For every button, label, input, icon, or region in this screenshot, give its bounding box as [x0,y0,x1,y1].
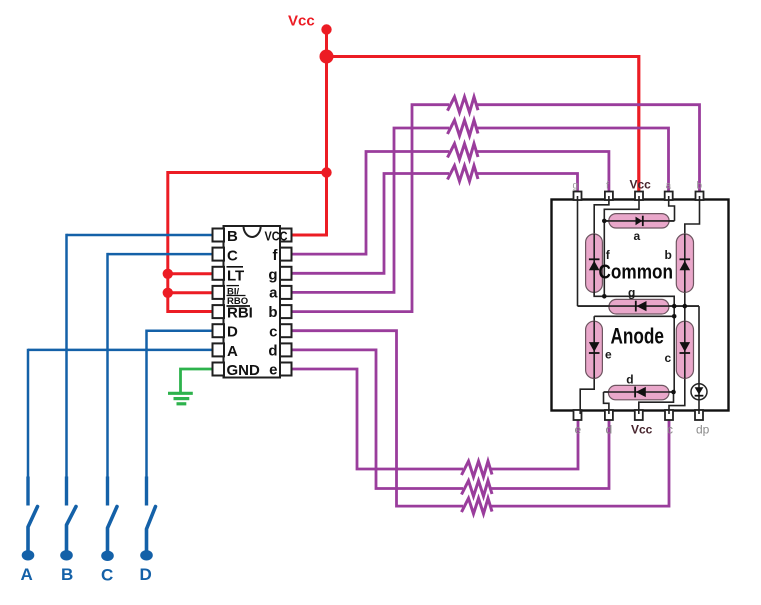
svg-text:e: e [605,348,612,362]
wire net c (R7 to display pin c) [491,418,669,506]
svg-text:e: e [575,423,582,437]
svg-text:LT: LT [227,268,244,285]
svg-text:C: C [227,248,238,265]
svg-text:d: d [268,343,277,360]
junction Vcc LT branch [321,167,331,177]
svg-text:g: g [573,181,579,192]
diode dp [691,384,707,400]
diode in segment d [636,387,646,397]
wire DS1 pin a internal [669,196,675,221]
wire to BI/RBO pin [168,291,214,294]
wire Vcc display drop [637,55,640,196]
wire input B vertical [65,234,68,478]
DS1 bottom pin dp [695,410,703,420]
diode line overlays inside segments [604,220,674,222]
DS1 top pin b [696,192,704,201]
U1 pin 3 (LT) [213,267,225,280]
switch SW-B [60,477,76,561]
svg-text:Vcc: Vcc [631,423,653,437]
wire net a (IC pin a to R2) [292,128,449,292]
diode in segment e [589,342,600,352]
svg-text:b: b [268,304,277,321]
DS1 bottom pin Vcc [635,410,643,420]
node anode junction rail/g [672,304,677,309]
resistor R7 (segment c) [462,498,493,514]
svg-text:C: C [101,566,113,585]
wire input A horizontal [28,349,214,352]
U1 pin 4 (BI/RBO) [213,286,225,299]
svg-text:a: a [634,229,641,243]
wire DS1 segment g diode line [578,305,700,307]
diode in segment b [680,261,691,271]
U1 pin 11 (c) [280,324,292,337]
svg-text:f: f [606,181,609,192]
diode in segment g [637,301,647,311]
wire Vcc to IC VCC pin [290,234,328,237]
svg-text:a: a [666,181,672,192]
wire input D vertical [145,330,148,478]
node anode junction b/c [683,304,688,309]
wire net d (IC pin d to R6) [292,350,463,489]
DS1 top pin Vcc [635,192,643,201]
svg-text:Vcc: Vcc [288,13,315,30]
wire DS1 segment d diode line [604,391,674,393]
svg-text:RBI: RBI [227,305,253,322]
resistor R1 (segment b) [448,97,479,113]
svg-text:B: B [227,228,238,245]
segment a body [609,214,669,228]
wire DS1 anode rail lower [594,315,674,317]
diode in segment a [636,217,643,226]
wire input A vertical [27,349,30,478]
wire net e (IC pin e to R5) [292,369,463,469]
wire DS1 pin d internal [604,392,609,414]
wire DS1 segment a diode line [604,220,674,222]
U1 pin 16 (VCC) [280,229,292,242]
svg-text:dp: dp [696,423,710,437]
node anode junction rail lower [672,314,677,319]
wire input C vertical [106,253,109,478]
switch SW-A [22,477,38,561]
ground [168,393,193,404]
segment c body [676,321,693,378]
resistor R6 (segment d) [462,481,493,497]
svg-text:b: b [665,248,672,262]
svg-text:VCC: VCC [265,229,289,244]
wire Vcc vertical trunk [325,30,328,236]
wire net f (IC pin f to R3) [292,152,449,255]
svg-text:c: c [665,351,672,365]
wire DS1 pin c internal [669,378,685,414]
wire net e (R5 to display pin e) [491,418,578,469]
wire net g (R4 to display pin g) [477,174,578,197]
DS1 bottom pin e [574,410,582,420]
segment e body [586,321,603,378]
switch SW-D [140,477,155,561]
resistor R2 (segment a) [448,120,479,136]
svg-text:D: D [227,324,238,341]
junction Vcc display branch [320,50,334,64]
U1 pin 8 (GND) [213,363,225,376]
wire net f (R3 to display pin f) [477,152,609,197]
node anode junction a [602,219,607,224]
power Vcc terminal dot [321,24,331,34]
junction BI/RBO pin [163,288,173,298]
U1 pin 12 (b) [280,305,292,318]
U1 pin 6 (A) [213,343,225,356]
junction LT pin [163,269,173,279]
wire DS1 anode rail right drop [604,296,674,392]
svg-text:g: g [268,267,277,284]
switch SW-C [101,477,117,562]
wire DS1 Vcc anode feed [604,196,639,296]
U1 pin 7 (D) [213,324,225,337]
segment b body [676,234,693,292]
wire DS1 segment e line and pin e internal [580,316,594,414]
svg-text:a: a [269,285,278,302]
wire DS1 pin f internal [594,196,609,296]
wire Vcc to display (horizontal) [327,55,639,58]
U1 pin 14 (g) [280,267,292,280]
diode in segment c [680,342,691,352]
display DS1 body [552,200,729,411]
segment d body [608,385,669,399]
DS1 top pin g [574,192,582,201]
U1 pin 9 (e) [280,363,292,376]
resistor R4 (segment g) [448,166,479,182]
DS1 top pin a [665,192,673,201]
svg-text:Common: Common [599,261,674,284]
wire DS1 dp line [698,306,700,414]
svg-text:b: b [697,181,703,192]
svg-text:c: c [667,423,673,437]
svg-text:g: g [628,286,635,300]
wire net g (IC pin g to R4) [292,174,449,274]
node anode junction d [671,390,676,395]
wire LT column vertical [168,171,214,312]
svg-text:D: D [140,565,152,584]
wire DS1 pin g internal drop [577,196,579,306]
U1 pin 13 (a) [280,286,292,299]
svg-text:e: e [269,362,277,379]
svg-text:A: A [227,343,238,360]
svg-text:d: d [606,423,613,437]
svg-text:Vcc: Vcc [630,178,652,192]
segment f body [586,234,603,292]
op-amp U1 body [224,226,281,378]
U1 pin 1 (B) [213,229,225,242]
svg-text:c: c [269,324,277,341]
U1 pin 15 (f) [280,248,292,261]
wire net a (R2 to display pin a) [477,128,669,196]
U1 notch [244,226,261,237]
DS1 bottom pin c [665,410,673,420]
svg-text:GND: GND [227,362,261,379]
U1 pin 5 (RBI) [213,305,225,318]
wire net b (IC pin b to R1) [292,105,449,312]
wire input C horizontal [108,253,215,256]
diode in segment f [589,261,600,271]
U1 pin 2 (C) [213,248,225,261]
wire DS1 bottom Vcc internal [639,392,674,414]
svg-text:B: B [61,565,73,584]
wire input D horizontal [147,329,215,332]
svg-text:Anode: Anode [611,323,665,348]
wire GND [181,369,215,393]
wire net d (R6 to display pin d) [491,418,609,489]
wire to LT pin [168,272,214,275]
node anode junction f [602,294,607,299]
DS1 bottom pin d [605,410,613,420]
segment g body [609,299,669,314]
DS1 top pin f [605,192,613,201]
resistor R5 (segment e) [462,461,493,477]
svg-text:d: d [626,373,633,387]
wire DS1 pin b internal and b/c spine [685,196,700,378]
U1 pin 10 (d) [280,343,292,356]
wire input B horizontal [67,234,215,237]
wire net c (IC pin c to R7) [292,331,463,506]
wire Vcc branch left [168,171,327,174]
wire net b (R1 to display pin b) [477,105,700,196]
svg-text:A: A [21,565,33,584]
resistor R3 (segment f) [448,144,479,160]
